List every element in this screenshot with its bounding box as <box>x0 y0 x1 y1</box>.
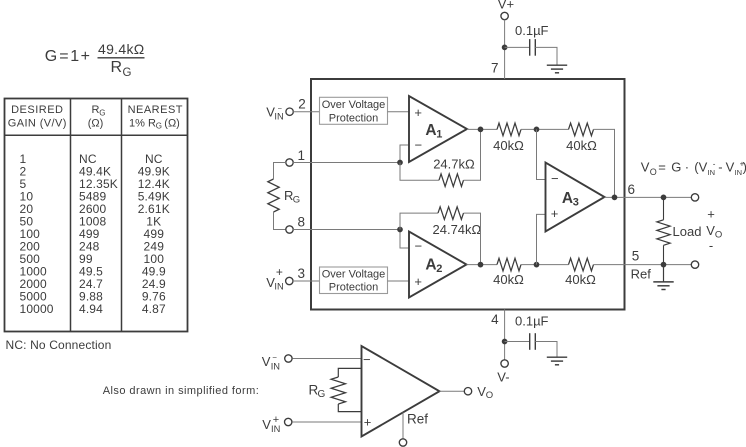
svg-text:-: - <box>709 238 713 253</box>
wire node to A3+ <box>537 214 546 264</box>
svg-text:IN: IN <box>708 168 716 177</box>
svg-text:10000: 10000 <box>20 302 54 316</box>
svg-text:NEAREST: NEAREST <box>128 104 183 116</box>
wire OVP1 to A1+ <box>388 111 410 113</box>
IC outline box <box>311 79 625 310</box>
junction V- / C2 <box>502 339 508 345</box>
svg-text:A: A <box>425 256 436 273</box>
svg-text:3: 3 <box>573 197 579 209</box>
svg-text:NC: No Connection: NC: No Connection <box>6 338 112 352</box>
wire ref (simplified) <box>402 412 404 439</box>
svg-text:GAIN (V/V): GAIN (V/V) <box>8 117 67 129</box>
wire node to A3- <box>537 129 546 179</box>
op-amp A2 <box>409 232 467 298</box>
svg-text:24.74kΩ: 24.74kΩ <box>433 222 482 237</box>
wire C1 to ground <box>535 47 557 65</box>
op-amp A3 <box>546 163 605 232</box>
wire OVP2 to A2+ <box>388 280 410 282</box>
svg-text:0.1µF: 0.1µF <box>515 23 549 38</box>
svg-text:24.7kΩ: 24.7kΩ <box>433 157 475 172</box>
wire amp out <box>440 390 465 392</box>
svg-text:40kΩ: 40kΩ <box>565 272 596 287</box>
svg-text:4.94: 4.94 <box>79 302 103 316</box>
wire RG bottom (simplified) <box>338 404 361 412</box>
svg-text:·: · <box>685 159 689 174</box>
svg-text:−: − <box>415 138 423 153</box>
svg-text:40kΩ: 40kΩ <box>566 138 597 153</box>
svg-text:−: − <box>363 352 371 367</box>
ground (V- bypass) <box>547 357 567 365</box>
svg-text:V+: V+ <box>498 0 514 11</box>
svg-text:-: - <box>718 159 722 174</box>
svg-text:8: 8 <box>297 214 305 229</box>
svg-text:−: − <box>272 353 277 362</box>
junction ref/ground <box>661 262 667 268</box>
junction bottom node <box>534 262 540 268</box>
wire R4 to A3 out <box>594 129 615 197</box>
op-amp A1 <box>409 96 467 162</box>
ground (V+ bypass) <box>547 65 567 73</box>
svg-text:G: G <box>45 48 57 65</box>
resistor Load <box>657 220 670 246</box>
svg-text:2: 2 <box>436 263 442 275</box>
terminal V- <box>501 360 508 367</box>
wire R2 to A2 output <box>464 213 481 265</box>
junction A2 out <box>478 262 484 268</box>
resistor R2 24.74k <box>438 207 464 220</box>
svg-text:+: + <box>273 414 279 426</box>
resistor RG external <box>268 179 279 212</box>
svg-text:1% R: 1% R <box>129 117 156 129</box>
svg-text:1: 1 <box>70 48 79 65</box>
wire R5 to node <box>521 264 569 266</box>
terminal output <box>691 194 698 201</box>
svg-text:Also drawn in simplified form:: Also drawn in simplified form: <box>103 385 260 397</box>
resistor R4 40k <box>569 123 594 136</box>
svg-text:−: − <box>415 238 423 253</box>
wire A2 out <box>467 264 498 266</box>
terminal pin 8 <box>286 226 293 233</box>
gain table frame <box>5 99 188 332</box>
svg-text:Ref: Ref <box>407 412 428 427</box>
svg-text:(Ω): (Ω) <box>88 117 104 129</box>
svg-text:(Ω): (Ω) <box>164 117 180 129</box>
svg-text:+: + <box>276 265 283 279</box>
wire RG to pin8 <box>274 212 286 230</box>
svg-text:1: 1 <box>297 148 305 163</box>
svg-text:5: 5 <box>632 248 640 263</box>
svg-text:-: - <box>713 159 716 168</box>
svg-text:R: R <box>111 59 123 76</box>
label +VO- <box>706 207 722 253</box>
wire A3 out <box>605 196 692 198</box>
label RG <box>284 188 300 206</box>
wire pin2 to OVP1 <box>293 111 319 113</box>
wire VIN- to amp <box>293 358 362 360</box>
svg-text:DESIRED: DESIRED <box>11 104 63 116</box>
svg-text:IN: IN <box>735 168 743 177</box>
svg-text:Protection: Protection <box>329 282 379 294</box>
svg-text:6: 6 <box>628 182 636 197</box>
junction top node <box>534 127 540 133</box>
capacitor C2 0.1uF <box>530 333 536 350</box>
svg-text:IN: IN <box>271 361 280 371</box>
svg-text:A: A <box>562 190 573 207</box>
terminal V+ <box>501 12 508 19</box>
svg-text:O: O <box>715 229 722 240</box>
terminal VIN+ (simplified) <box>285 418 292 425</box>
terminal pin 1 <box>286 159 293 166</box>
svg-text:): ) <box>743 159 746 174</box>
svg-text:G: G <box>293 194 300 205</box>
wire pin1 to A1- node <box>293 162 400 164</box>
wire pin 4 to V- <box>504 309 506 360</box>
over-voltage protection U2 <box>320 267 388 294</box>
svg-text:+: + <box>414 105 422 120</box>
svg-text:IN: IN <box>274 282 283 292</box>
junction A1 out <box>478 127 484 133</box>
svg-text:+: + <box>707 207 715 222</box>
svg-text:V: V <box>641 159 650 174</box>
svg-text:1: 1 <box>436 129 442 141</box>
svg-text:A: A <box>425 122 436 139</box>
resistor R3 40k <box>497 123 521 136</box>
terminal ref (simplified) <box>399 439 406 446</box>
wire A1 feedback down <box>400 163 439 181</box>
svg-text:+: + <box>551 206 559 221</box>
svg-text:4: 4 <box>491 312 499 327</box>
svg-text:Over Voltage: Over Voltage <box>322 269 386 281</box>
svg-text:=: = <box>59 48 68 65</box>
wire pin3 to OVP2 <box>293 280 320 282</box>
svg-text:40kΩ: 40kΩ <box>493 138 524 153</box>
svg-text:G: G <box>318 389 326 400</box>
svg-text:O: O <box>486 390 493 401</box>
svg-text:V: V <box>262 354 271 369</box>
capacitor C1 0.1uF <box>530 39 536 56</box>
wire R6 to pin 5 <box>594 264 692 266</box>
wire A1- node up <box>400 145 409 163</box>
resistor R6 40k <box>569 258 594 271</box>
svg-text:+: + <box>81 48 90 65</box>
svg-text:O: O <box>650 167 657 177</box>
table header <box>8 104 183 131</box>
svg-text:3: 3 <box>297 266 305 281</box>
svg-text:Protection: Protection <box>329 112 379 124</box>
junction V+ / C1 <box>502 45 508 51</box>
svg-text:−: − <box>278 104 283 113</box>
svg-text:Over Voltage: Over Voltage <box>322 99 386 111</box>
wire to C2 <box>505 341 530 343</box>
gain equation G = 1 + 49.4k/RG <box>45 41 145 79</box>
svg-text:+: + <box>414 274 422 289</box>
junction A1- node <box>397 160 403 166</box>
wire R3 to node <box>521 128 569 130</box>
svg-text:Load: Load <box>673 224 702 239</box>
svg-text:40kΩ: 40kΩ <box>493 272 524 287</box>
svg-text:4.87: 4.87 <box>142 302 166 316</box>
wire pin8 to A2- node <box>293 229 400 231</box>
svg-text:+: + <box>364 415 372 430</box>
wire C2 to ground <box>535 342 557 358</box>
node VIN- (simplified) <box>262 353 280 371</box>
svg-text:0.1µF: 0.1µF <box>515 313 549 328</box>
table data rows <box>20 152 170 316</box>
wire A1 out <box>467 128 497 130</box>
resistor R5 40k <box>497 258 521 271</box>
svg-text:V: V <box>706 223 715 238</box>
junction output/load <box>661 195 667 201</box>
svg-text:G: G <box>671 159 681 174</box>
wire load to ref <box>663 245 665 264</box>
wire R1 to A1 output <box>464 129 481 180</box>
svg-text:G: G <box>99 108 105 117</box>
wire A2- node down <box>400 230 409 249</box>
terminal pin 3 <box>286 277 293 284</box>
junction A3 out feedback <box>612 195 618 201</box>
wire A2 feedback up <box>400 213 438 229</box>
svg-text:(V: (V <box>694 159 707 174</box>
svg-text:Ref: Ref <box>631 266 652 281</box>
svg-text:2: 2 <box>298 97 306 112</box>
wire VIN+ to amp <box>293 421 362 423</box>
resistor R1 24.7k <box>439 174 464 187</box>
svg-text:49.4kΩ: 49.4kΩ <box>98 41 145 57</box>
svg-text:G: G <box>156 122 162 131</box>
wire pin1 to RG <box>274 163 286 180</box>
node VO (simplified) <box>477 384 493 401</box>
terminal VO (simplified) <box>464 388 471 395</box>
svg-text:−: − <box>551 171 559 186</box>
op-amp simplified <box>362 346 440 437</box>
formula VO <box>641 159 746 177</box>
node VIN- <box>266 104 283 121</box>
terminal VIN- (simplified) <box>285 355 292 362</box>
junction A2- node <box>397 227 403 233</box>
wire out to load <box>663 197 665 219</box>
terminal pin 2 <box>286 108 293 115</box>
svg-text:V: V <box>726 159 735 174</box>
wire RG top (simplified) <box>338 368 361 377</box>
wire to C1 <box>505 46 530 48</box>
svg-text:G: G <box>123 67 132 79</box>
wire ref to ground <box>663 265 665 282</box>
over-voltage protection U1 <box>320 97 388 124</box>
svg-text:V: V <box>262 417 271 432</box>
wire V+ to pin 7 <box>504 20 506 79</box>
resistor RG (simplified) <box>331 377 345 404</box>
node VIN+ <box>266 265 283 292</box>
svg-text:7: 7 <box>491 61 499 76</box>
label RG (simplified) <box>309 382 326 400</box>
node VIN+ (simplified) <box>262 414 280 434</box>
svg-text:V-: V- <box>497 369 509 384</box>
svg-text:=: = <box>658 159 666 174</box>
ground (ref) <box>653 282 673 290</box>
terminal ref <box>691 261 698 268</box>
